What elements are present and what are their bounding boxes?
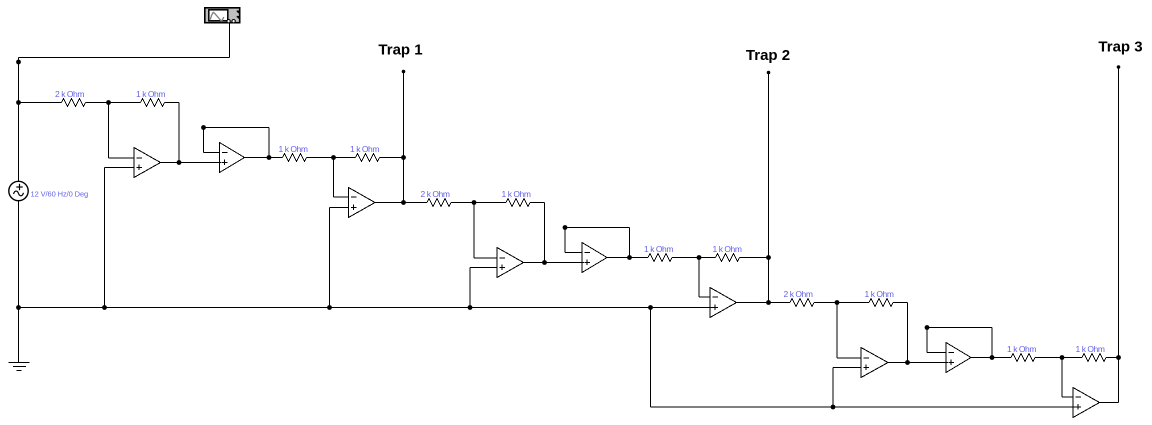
wire U3 noninverting input stub bbox=[330, 207, 350, 209]
junction U5 output / feedback bbox=[627, 255, 632, 260]
wire U5 feedback top bbox=[565, 227, 630, 229]
svg-text:1 k Ohm: 1 k Ohm bbox=[136, 89, 165, 99]
junction left bus / ground rail bbox=[16, 305, 21, 310]
op-amp U9 bbox=[1073, 388, 1100, 418]
wire stage3 rail drop bbox=[650, 308, 652, 408]
wire U8 output row bbox=[971, 357, 1011, 359]
svg-text:1 k Ohm: 1 k Ohm bbox=[1007, 344, 1036, 354]
op-amp U3 bbox=[349, 188, 376, 218]
svg-text:1 k Ohm: 1 k Ohm bbox=[350, 144, 379, 154]
wire R12 to trap line bbox=[1106, 357, 1119, 359]
op-amp U5 input polarity marks bbox=[585, 252, 591, 254]
junction U9 input node bbox=[1060, 355, 1065, 360]
wire feedback row U7 right bbox=[893, 302, 908, 304]
junction rail / U4 plus bbox=[468, 305, 473, 310]
wire U7 output bbox=[888, 362, 948, 364]
svg-text:Trap 3: Trap 3 bbox=[1098, 39, 1142, 56]
wire between R11 and R12 bbox=[1035, 357, 1082, 359]
junction U2 feedback corner bbox=[201, 125, 206, 130]
wire input row stage3 left bbox=[769, 302, 791, 304]
wire U4 noninverting to rail bbox=[469, 268, 471, 308]
junction top-left corner bbox=[16, 60, 21, 65]
op-amp U7 input polarity marks bbox=[864, 357, 870, 359]
wire U9 inverting input vertical bbox=[1061, 358, 1063, 398]
op-amp U3 input polarity marks bbox=[351, 196, 357, 198]
junction U8 output / feedback bbox=[990, 355, 995, 360]
wire U8 feedback top bbox=[927, 327, 992, 329]
node Trap 2 terminal bbox=[767, 71, 771, 75]
junction trap2 / U6 output bbox=[766, 300, 771, 305]
resistor R6 1k feedback bbox=[506, 199, 530, 207]
wire U7 inverting input vertical bbox=[836, 303, 838, 359]
wire feedback row U4 right bbox=[530, 202, 545, 204]
junction rail / U1 plus bbox=[102, 305, 107, 310]
wire ground rail bbox=[19, 307, 714, 309]
wire U2 feedback top bbox=[204, 127, 270, 129]
wire U1 noninverting to rail bbox=[104, 168, 106, 308]
resistor R12 1k bbox=[1082, 354, 1106, 362]
resistor R4 1k bbox=[356, 154, 380, 162]
wire U5 output row bbox=[607, 257, 648, 259]
wire feedback drop U7 bbox=[907, 303, 909, 363]
svg-text:1 k Ohm: 1 k Ohm bbox=[279, 144, 308, 154]
op-amp U1 bbox=[134, 148, 161, 178]
wire feedback row U1 left bbox=[109, 102, 141, 104]
svg-text:1 k Ohm: 1 k Ohm bbox=[713, 244, 742, 254]
wire feedback row U4 left bbox=[474, 202, 506, 204]
op-amp U9 input polarity marks bbox=[1076, 396, 1082, 398]
wire U4 inverting input vertical bbox=[473, 203, 475, 259]
wire feedback row U1 right bbox=[165, 102, 180, 104]
wire U2 output row bbox=[245, 157, 283, 159]
svg-text:2 k Ohm: 2 k Ohm bbox=[421, 189, 450, 199]
op-amp U8 input polarity marks bbox=[949, 352, 955, 354]
op-amp U4 bbox=[497, 248, 524, 278]
wire feedback drop U4 bbox=[544, 203, 546, 263]
svg-text:1 k Ohm: 1 k Ohm bbox=[644, 244, 673, 254]
oscilloscope XSC1 bbox=[205, 8, 241, 23]
junction U1 output / feedback bbox=[177, 160, 182, 165]
resistor R3 1k bbox=[283, 154, 307, 162]
wire U2 feedback up bbox=[203, 128, 205, 153]
wire U3 inverting input vertical bbox=[333, 158, 335, 198]
wire top horizontal bbox=[19, 57, 230, 59]
wire between R3 and R4 bbox=[307, 157, 356, 159]
wire trap3 vertical bbox=[1118, 67, 1120, 403]
wire U3 output bbox=[375, 202, 404, 204]
resistor R9 2k bbox=[790, 299, 814, 307]
wire trap1 vertical bbox=[403, 72, 405, 203]
svg-text:1 k Ohm: 1 k Ohm bbox=[1076, 344, 1105, 354]
wire U4 noninverting input stub bbox=[470, 267, 498, 269]
wire U6 inverting input vertical bbox=[698, 258, 700, 298]
junction U4 output / feedback bbox=[542, 260, 547, 265]
wire scope drop bbox=[229, 23, 231, 58]
wire U1 inverting input vertical bbox=[108, 103, 110, 159]
resistor R11 1k bbox=[1011, 354, 1035, 362]
wire trap2 vertical bbox=[768, 73, 770, 303]
junction U5 feedback corner bbox=[563, 225, 568, 230]
wire U6 output bbox=[737, 302, 769, 304]
source V1 sine 12V/60Hz bbox=[9, 181, 28, 200]
wire input row stage2 left bbox=[404, 202, 428, 204]
svg-text:Trap 1: Trap 1 bbox=[378, 42, 422, 59]
wire U9 output bbox=[1100, 402, 1119, 404]
wire U8 inverting stub bbox=[927, 352, 947, 354]
wire U6 inverting input stub bbox=[699, 296, 711, 298]
resistor R1 2k bbox=[62, 99, 86, 107]
wire U5 inverting stub bbox=[565, 252, 583, 254]
wire input row stage1 right bbox=[86, 102, 109, 104]
svg-text:1 k Ohm: 1 k Ohm bbox=[502, 189, 531, 199]
junction bottom rail / U7 plus bbox=[831, 405, 836, 410]
wire U3 noninverting to rail bbox=[329, 208, 331, 308]
junction trap3 / resistor row bbox=[1116, 355, 1121, 360]
svg-text:2 k Ohm: 2 k Ohm bbox=[784, 289, 813, 299]
resistor R2 1k feedback bbox=[141, 99, 165, 107]
junction U2 output / feedback bbox=[267, 155, 272, 160]
wire feedback row U7 left bbox=[837, 302, 869, 304]
wire U7 noninverting to rail bbox=[832, 368, 834, 408]
wire U8 feedback drop bbox=[991, 328, 993, 358]
wire input row stage1 left bbox=[19, 102, 62, 104]
op-amp U6 input polarity marks bbox=[713, 296, 719, 298]
wire U1 output bbox=[161, 162, 222, 164]
wire R8 to trap line bbox=[740, 257, 769, 259]
wire input row stage3 right bbox=[814, 302, 837, 304]
junction rail / stage3 drop bbox=[648, 305, 653, 310]
wire input row stage2 right bbox=[451, 202, 474, 204]
wire U7 inverting input stub bbox=[837, 357, 862, 359]
resistor R7 1k bbox=[648, 254, 672, 262]
resistor R8 1k bbox=[716, 254, 740, 262]
wire between R7 and R8 bbox=[672, 257, 716, 259]
ground bbox=[9, 363, 30, 371]
wire U7 noninverting input stub bbox=[833, 367, 862, 369]
op-amp U5 buffer bbox=[582, 243, 607, 273]
wire U1 inverting input stub bbox=[109, 157, 135, 159]
wire U8 feedback up bbox=[926, 328, 928, 353]
wire stage3 bottom rail bbox=[651, 406, 1077, 408]
wire U9 inverting input stub bbox=[1062, 396, 1074, 398]
junction rail / U3 plus bbox=[327, 305, 332, 310]
resistor R10 1k feedback bbox=[869, 299, 893, 307]
node J3 input junction bbox=[835, 300, 840, 305]
op-amp U8 buffer bbox=[946, 343, 971, 373]
svg-text:1 k Ohm: 1 k Ohm bbox=[865, 289, 894, 299]
op-amp U2 input polarity marks bbox=[222, 152, 228, 154]
wire left bus upper bbox=[18, 58, 20, 182]
wire U1 noninverting input stub bbox=[105, 167, 135, 169]
op-amp U6 bbox=[710, 288, 737, 318]
wire U4 output bbox=[524, 262, 585, 264]
wire U5 feedback drop bbox=[629, 228, 631, 258]
wire U2 inverting stub bbox=[204, 152, 221, 154]
wire R4 to trap line bbox=[380, 157, 404, 159]
junction U8 feedback corner bbox=[925, 325, 930, 330]
junction U6 input node bbox=[697, 255, 702, 260]
resistor R5 2k bbox=[427, 199, 451, 207]
node J2 input junction bbox=[472, 200, 477, 205]
junction U3 input node bbox=[331, 155, 336, 160]
svg-text:12 V/60 Hz/0 Deg: 12 V/60 Hz/0 Deg bbox=[31, 190, 89, 199]
junction U7 output / feedback bbox=[905, 360, 910, 365]
op-amp U2 buffer bbox=[220, 143, 245, 173]
junction left bus / input row bbox=[16, 100, 21, 105]
junction trap2 / resistor row bbox=[766, 255, 771, 260]
svg-text:Trap 2: Trap 2 bbox=[746, 47, 790, 64]
wire U4 inverting input stub bbox=[474, 257, 498, 259]
node Trap 3 terminal bbox=[1117, 65, 1121, 69]
op-amp U1 input polarity marks bbox=[137, 157, 143, 159]
wire U3 inverting input stub bbox=[334, 196, 350, 198]
node J1 input junction bbox=[106, 100, 111, 105]
svg-text:2 k Ohm: 2 k Ohm bbox=[55, 89, 84, 99]
wire feedback drop U1 bbox=[178, 103, 180, 163]
wire U2 feedback drop bbox=[268, 128, 270, 158]
node Trap 1 terminal bbox=[402, 70, 406, 74]
junction trap1 / U3 output bbox=[401, 200, 406, 205]
junction trap1 / resistor row bbox=[401, 155, 406, 160]
op-amp U4 input polarity marks bbox=[500, 257, 506, 259]
wire left bus lower bbox=[18, 201, 20, 362]
wire U5 feedback up bbox=[564, 228, 566, 253]
op-amp U7 bbox=[861, 348, 888, 378]
